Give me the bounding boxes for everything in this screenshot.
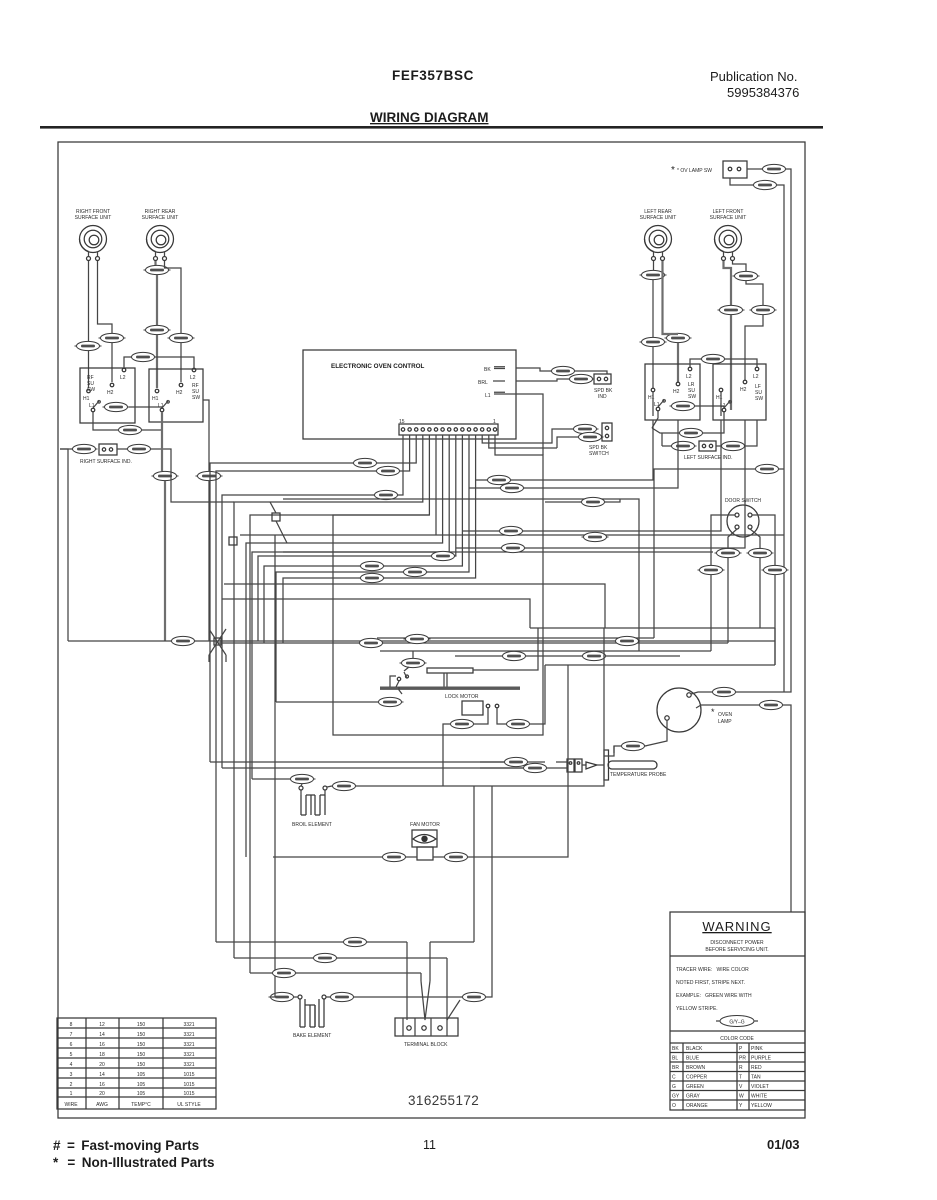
svg-text:SURFACE UNIT: SURFACE UNIT: [142, 215, 179, 221]
connector oval T-5: [711, 687, 738, 696]
connector oval B-0: [582, 532, 609, 541]
warning divider: [670, 955, 805, 957]
connector oval Y-B: [665, 333, 692, 342]
svg-text:8: 8: [70, 1022, 73, 1028]
wire BK-8 left: [614, 746, 621, 753]
wire PK-2 to LF L1: [695, 406, 724, 408]
wire lamp to T-5: [691, 575, 791, 694]
svg-text:L2: L2: [753, 374, 759, 380]
svg-text:SW: SW: [688, 394, 696, 400]
wire RR H1 thick: [154, 261, 156, 265]
wire eoc L1 to loop: [505, 394, 543, 455]
connector oval Y-4: [168, 333, 195, 342]
svg-text:ELECTRONIC OVEN CONTROL: ELECTRONIC OVEN CONTROL: [331, 363, 425, 370]
svg-text:TAN: TAN: [751, 1075, 761, 1081]
wire x568 fan up: [567, 665, 569, 720]
wire L1 down: [92, 412, 94, 421]
svg-text:* OV LAMP SW: * OV LAMP SW: [677, 168, 712, 174]
svg-text:LOCK MOTOR: LOCK MOTOR: [445, 694, 479, 700]
connector oval PK-1: [103, 402, 130, 411]
svg-text:G/Y–G: G/Y–G: [729, 1020, 744, 1026]
svg-text:GY: GY: [672, 1094, 680, 1100]
LR terminal L2: [688, 367, 692, 371]
connector oval B-9: [461, 992, 488, 1001]
wire oval to right vertical: [786, 169, 791, 575]
svg-text:Y: Y: [739, 1103, 743, 1109]
svg-text:H2: H2: [176, 390, 183, 396]
connector oval R-4: [99, 333, 126, 342]
connector oval R-2: [271, 968, 298, 977]
RR terminal L2: [192, 368, 196, 372]
wire y762 probe V: [210, 761, 504, 763]
svg-text:TEMPERATURE PROBE: TEMPERATURE PROBE: [610, 772, 667, 778]
svg-text:3321: 3321: [183, 1042, 194, 1048]
junction square b: [229, 537, 237, 545]
wire left stub: [60, 448, 73, 450]
lock motor stem: [444, 673, 447, 687]
probe stem: [597, 764, 604, 766]
wire LR L2 jumper up: [690, 359, 701, 367]
wire RR H2 into box: [180, 343, 182, 382]
connector oval W-2: [404, 634, 431, 643]
wire probe left V-2: [480, 761, 545, 763]
indicator contacts: [102, 448, 105, 451]
RR terminal L1: [160, 408, 164, 412]
wire y584: [224, 584, 605, 628]
RF SU SW box: [80, 368, 135, 423]
svg-text:IND: IND: [598, 394, 607, 400]
wire BK-2 to element: [301, 784, 325, 795]
svg-text:Publication No.: Publication No.: [710, 69, 797, 84]
wire RF H1 lower: [88, 351, 90, 388]
fan motor box: [412, 830, 437, 847]
svg-text:18: 18: [99, 1052, 105, 1058]
connector oval BK-7: [580, 497, 607, 506]
wire BR-4: [497, 713, 545, 724]
wire y651: [380, 650, 711, 652]
svg-text:BRL: BRL: [478, 380, 488, 386]
wire y638: [377, 637, 654, 639]
wire LF H2 into box: [745, 315, 763, 380]
connector oval V-3: [430, 551, 457, 560]
table col lines: [86, 1018, 163, 1109]
wire sw to oval L-A: [747, 168, 762, 170]
wire pin6 chain: [264, 435, 462, 643]
wire to PK oval: [716, 445, 721, 447]
wire y643: [218, 642, 728, 644]
lock motor bar: [380, 687, 520, 690]
svg-text:COPPER: COPPER: [686, 1075, 708, 1081]
svg-text:105: 105: [137, 1091, 146, 1097]
probe tip triangle: [586, 762, 597, 769]
connector oval W-4a: [550, 366, 577, 375]
svg-text:150: 150: [137, 1032, 146, 1038]
wire pin13 chain: [210, 435, 416, 762]
svg-text:FAN MOTOR: FAN MOTOR: [410, 822, 440, 828]
connector oval R-1: [359, 561, 386, 570]
svg-text:VIOLET: VIOLET: [751, 1084, 769, 1090]
svg-text:SW: SW: [755, 396, 763, 402]
connector oval B-6a: [499, 483, 526, 492]
wire sw bottom to oval 2: [730, 178, 753, 185]
wire LR H1 low: [652, 347, 654, 388]
color code grid: [670, 1043, 805, 1110]
svg-text:5995384376: 5995384376: [727, 85, 799, 100]
connector oval BK-8: [620, 741, 647, 750]
svg-text:01/03: 01/03: [767, 1137, 800, 1152]
probe mount plate: [604, 750, 609, 780]
wire W-7 right: [354, 996, 462, 998]
svg-text:3321: 3321: [183, 1032, 194, 1038]
heading rule: [40, 126, 823, 129]
svg-text:L2: L2: [120, 375, 126, 381]
wire jumper to RR L2: [154, 357, 194, 368]
wire y599: [222, 599, 530, 628]
connector oval B-1: [71, 444, 98, 453]
svg-text:150: 150: [137, 1052, 146, 1058]
terminal H1: [87, 389, 91, 393]
svg-text:7: 7: [70, 1032, 73, 1038]
connector oval L-A: [761, 164, 788, 173]
svg-text:20: 20: [99, 1062, 105, 1068]
svg-text:12: 12: [99, 1022, 105, 1028]
wire probe left Y-2: [480, 767, 556, 769]
svg-text:OVEN: OVEN: [718, 712, 733, 718]
LF SU SW box: [713, 364, 766, 420]
svg-text:6: 6: [70, 1042, 73, 1048]
svg-text:SWITCH: SWITCH: [589, 451, 609, 457]
wire W-4 to ind box top: [575, 371, 607, 374]
svg-text:105: 105: [137, 1072, 146, 1078]
connector oval W-A: [752, 180, 779, 189]
wire long y641: [68, 640, 775, 642]
wire y973: [250, 972, 421, 974]
spd bk switch box: [602, 423, 612, 441]
svg-text:C: C: [672, 1075, 676, 1081]
svg-text:15: 15: [399, 419, 405, 425]
svg-text:150: 150: [137, 1042, 146, 1048]
wire PR-1 drop to y502: [171, 452, 234, 502]
wire pin12 chain: [234, 435, 423, 958]
connector oval GY-4a: [400, 658, 427, 667]
wire LR H1 mid: [652, 280, 654, 337]
svg-text:4: 4: [70, 1062, 73, 1068]
svg-text:1015: 1015: [183, 1091, 194, 1097]
svg-text:11: 11: [423, 1138, 436, 1152]
svg-text:G: G: [672, 1084, 676, 1090]
wire pin7 chain: [258, 435, 456, 641]
left front surface unit coil: [715, 226, 742, 261]
LR terminal H1: [651, 388, 655, 392]
svg-text:H2: H2: [107, 390, 114, 396]
wire RR H1 mid: [156, 275, 158, 325]
svg-text:L2: L2: [190, 375, 196, 381]
RR switch arm: [162, 401, 169, 409]
connector oval Y-2: [522, 763, 549, 772]
wire RF H2: [98, 261, 113, 333]
outer border: [58, 142, 805, 1118]
connector oval D-4a: [377, 697, 404, 706]
electronic oven control box: [303, 350, 516, 439]
svg-text:H1: H1: [83, 396, 90, 402]
LF terminal H1: [719, 388, 723, 392]
connector oval PK-3: [720, 441, 747, 450]
connector oval Y-A: [640, 270, 667, 279]
spd bk ind box: [594, 374, 611, 384]
connector oval BK-9: [342, 937, 369, 946]
connector oval BR-0: [614, 636, 641, 645]
terminal H2: [110, 383, 114, 387]
svg-text:316255172: 316255172: [408, 1093, 479, 1108]
broil element coil: [301, 795, 325, 815]
wire pin5 chain: [276, 435, 469, 702]
connector oval BR-4b: [750, 305, 777, 314]
svg-text:5: 5: [70, 1052, 73, 1058]
wire GY-4 up: [404, 651, 413, 671]
ov lamp switch contacts: [728, 167, 732, 171]
svg-text:3321: 3321: [183, 1022, 194, 1028]
warning box frame: [670, 912, 805, 1110]
connector oval W/BL-4: [117, 425, 144, 434]
wire pin4 chain: [283, 435, 476, 643]
wire D-4 left: [276, 676, 402, 702]
wire y552 right trunk: [283, 551, 713, 553]
connector oval L-1: [498, 526, 525, 535]
svg-text:BLUE: BLUE: [686, 1056, 700, 1062]
lock motor sub box: [462, 701, 483, 715]
connector oval B-4c: [130, 352, 157, 361]
connector oval PK-2: [670, 401, 697, 410]
connector oval B-7: [331, 781, 358, 790]
table row lines: [57, 1028, 216, 1097]
wire y665: [545, 628, 775, 713]
svg-text:BAKE ELEMENT: BAKE ELEMENT: [293, 1033, 331, 1039]
connector oval BK-1b: [152, 471, 179, 480]
sub box terminals: [486, 704, 490, 708]
svg-text:SURFACE UNIT: SURFACE UNIT: [640, 215, 677, 221]
svg-text:EXAMPLE: GREEN WIRE WITH: EXAMPLE: GREEN WIRE WITH: [676, 993, 752, 999]
svg-text:DISCONNECT POWER: DISCONNECT POWER: [710, 940, 764, 946]
svg-text:3: 3: [70, 1072, 73, 1078]
wire table text: [64, 1022, 201, 1108]
svg-text:O: O: [672, 1103, 676, 1109]
connector oval W-3: [170, 636, 197, 645]
svg-text:COLOR CODE: COLOR CODE: [720, 1036, 754, 1042]
wire B-7: [327, 628, 604, 787]
connector oval P-1: [670, 441, 697, 450]
wire box2 right side down: [203, 400, 209, 452]
wire eoc BK to W-4 oval: [516, 368, 551, 371]
connector oval W-4b: [449, 719, 476, 728]
wire ovals to terminals: [294, 996, 330, 998]
svg-text:WIRING DIAGRAM: WIRING DIAGRAM: [370, 110, 489, 125]
wire LF H1 thick: [724, 261, 732, 305]
wire lamp BK-5: [696, 705, 791, 912]
svg-text:BROIL ELEMENT: BROIL ELEMENT: [292, 822, 332, 828]
svg-text:1: 1: [493, 419, 496, 425]
svg-text:105: 105: [137, 1082, 146, 1088]
svg-text:T: T: [739, 1075, 742, 1081]
connector oval PR-1: [126, 444, 153, 453]
svg-text:PINK: PINK: [751, 1046, 763, 1052]
junction diagonals: [209, 629, 226, 662]
connector oval BR-1: [572, 424, 599, 433]
wire jumper to LF L2: [725, 359, 757, 367]
wire RF H2 lower: [111, 343, 113, 382]
connector oval V-4a: [381, 852, 408, 861]
svg-text:# = Fast-moving Parts: # = Fast-moving Parts: [53, 1138, 199, 1153]
svg-text:DOOR SWITCH: DOOR SWITCH: [725, 498, 761, 504]
right surface indicator box: [99, 444, 117, 455]
svg-text:BR: BR: [672, 1065, 679, 1071]
RR SU SW box: [149, 369, 203, 422]
svg-text:RED: RED: [751, 1065, 762, 1071]
connector oval BR/O-2: [678, 428, 705, 437]
wire LR L1 down diag: [652, 411, 658, 428]
connector oval BL-5: [500, 543, 527, 552]
LF switch arm: [724, 401, 731, 409]
connector oval W-5: [443, 852, 470, 861]
junction square a: [272, 513, 280, 521]
terminal L2: [122, 368, 126, 372]
connector oval BK-1c: [568, 374, 595, 383]
wire RF H1: [88, 261, 90, 341]
svg-text:PURPLE: PURPLE: [751, 1056, 772, 1062]
connector oval B-4: [144, 325, 171, 334]
connector oval BR-4a: [505, 719, 532, 728]
connector oval Y-1: [359, 573, 386, 582]
svg-text:20: 20: [99, 1091, 105, 1097]
wire RR H1 into box: [156, 335, 158, 388]
connector oval T-6: [747, 548, 774, 557]
wire under box2 right: [208, 452, 210, 641]
probe connector blocks: [567, 759, 574, 772]
wire pin11 chain: [250, 435, 429, 973]
wire table frame: [57, 1018, 216, 1109]
terminal L1: [91, 408, 95, 412]
svg-text:H2: H2: [673, 389, 680, 395]
bake terminals: [298, 995, 302, 999]
svg-text:16: 16: [99, 1042, 105, 1048]
left surface ind box: [699, 441, 716, 451]
connector oval P-6: [715, 548, 742, 557]
svg-text:WARNING: WARNING: [702, 919, 771, 934]
wire pin9 chain: [246, 435, 443, 857]
wire pin10 chain + long y535: [240, 435, 784, 997]
connector oval BR-4: [75, 341, 102, 350]
svg-text:BK: BK: [484, 367, 491, 373]
LF terminal L2: [755, 367, 759, 371]
svg-text:UL STYLE: UL STYLE: [177, 1102, 201, 1108]
wire y997 bake: [270, 996, 275, 998]
wire y768 probe Y: [222, 767, 523, 769]
switch contacts: [605, 426, 608, 429]
lock motor cap: [427, 668, 473, 673]
connector oval BK-3: [358, 638, 385, 647]
oven lamp terminals: [687, 693, 691, 697]
fan motor eye: [413, 835, 436, 844]
wire branch y548 to LF H2: [456, 420, 745, 548]
broil terminals: [299, 786, 303, 790]
svg-text:1015: 1015: [183, 1082, 194, 1088]
svg-text:14: 14: [99, 1032, 105, 1038]
ind contacts: [702, 444, 705, 447]
wire branch y531 to LF H1: [462, 392, 721, 531]
wire y499 right: [283, 499, 639, 651]
wire RR H2: [165, 261, 182, 333]
svg-text:BLACK: BLACK: [686, 1046, 703, 1052]
switch arm RF: [93, 401, 100, 409]
svg-text:SW: SW: [87, 387, 95, 393]
svg-text:WIRE: WIRE: [64, 1102, 78, 1108]
example oval G/Y-G: [720, 1016, 754, 1027]
wire branch y488 to LR H2: [469, 420, 678, 488]
right rear surface unit coil: [147, 226, 174, 261]
svg-text:150: 150: [137, 1022, 146, 1028]
svg-text:PR: PR: [739, 1056, 746, 1062]
wire left column: [60, 449, 68, 641]
wire y502 right: [545, 499, 620, 502]
connector oval W-6: [698, 565, 725, 574]
LF terminal H2: [743, 380, 747, 384]
wire branch y480 to LR H1: [476, 392, 653, 480]
wire fan left: [273, 856, 417, 858]
bake element coil: [300, 999, 315, 1027]
wire y779 broil: [252, 778, 290, 780]
svg-text:YELLOW STRIPE.: YELLOW STRIPE.: [676, 1006, 718, 1012]
connector oval O-4: [718, 305, 745, 314]
wire PR-1 right: [151, 449, 171, 452]
wire pin1 chain right: [333, 435, 543, 735]
connector oval BK-4: [144, 265, 171, 274]
svg-text:*: *: [671, 165, 675, 176]
eoc terminal strip: [399, 424, 498, 435]
fan motor lower box: [417, 847, 433, 860]
wire L1 to W/BL oval: [93, 421, 162, 430]
svg-text:H1: H1: [152, 396, 159, 402]
wire door bottom-left pin: [728, 529, 737, 643]
terminal block wires up: [407, 786, 474, 1020]
LF terminal L1: [722, 408, 726, 412]
connector oval W-1: [375, 466, 402, 475]
wire PK-3 right: [745, 420, 757, 446]
svg-text:WHITE: WHITE: [751, 1094, 768, 1100]
LR terminal L1: [656, 407, 660, 411]
svg-text:* = Non-Illustrated Parts: * = Non-Illustrated Parts: [53, 1155, 215, 1170]
wire y942: [216, 941, 407, 943]
wire RR L1 down: [161, 412, 163, 426]
connector oval B-5: [196, 471, 223, 480]
wire door top-right pin: [752, 515, 775, 665]
connector oval GY-6: [762, 565, 789, 574]
LR switch arm: [658, 400, 665, 408]
wire pin8 chain: [252, 435, 449, 779]
wire B-2 left: [557, 437, 578, 448]
svg-text:14: 14: [99, 1072, 105, 1078]
svg-text:TRACER WIRE: WIRE COLOR: TRACER WIRE: WIRE COLOR: [676, 967, 749, 973]
svg-text:AWG: AWG: [96, 1102, 108, 1108]
svg-text:16: 16: [99, 1082, 105, 1088]
wire LF H2: [733, 261, 747, 271]
svg-text:*: *: [711, 707, 715, 717]
wire pin2 chain right: [489, 435, 557, 448]
left rear surface unit coil: [645, 226, 672, 261]
connector oval BK-2: [289, 774, 316, 783]
svg-text:GREEN: GREEN: [686, 1084, 704, 1090]
wire pin3 chain right: [482, 435, 552, 443]
wire fan right: [433, 720, 568, 857]
LR terminal H2: [676, 382, 680, 386]
